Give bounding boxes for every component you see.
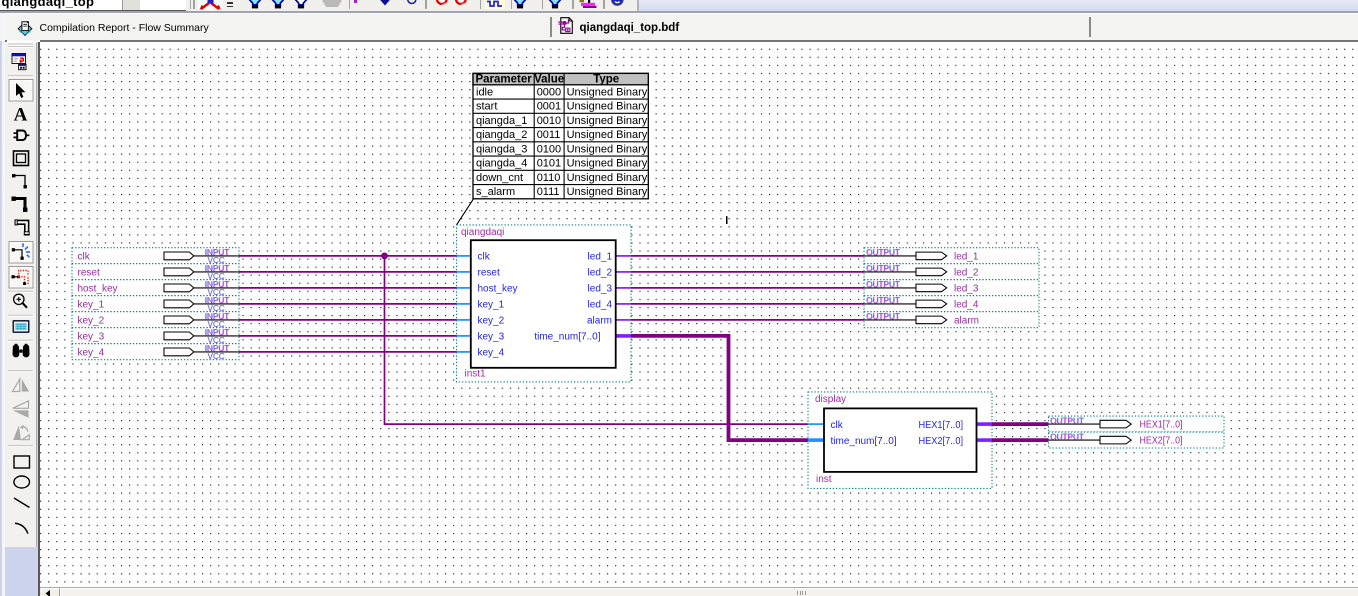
bus time_num[7..0] [631,335,808,439]
output pin alarm [864,311,1039,327]
svg-text:host_key: host_key [478,283,518,294]
svg-text:clk: clk [78,251,91,262]
wire reset to qiangdaqi [239,270,457,272]
bus wire HEX1[7..0] [992,422,1049,426]
svg-text:Type: Type [593,73,619,85]
junction clk node [381,252,388,259]
svg-text:time_num[7..0]: time_num[7..0] [534,331,600,342]
svg-text:led_2: led_2 [588,267,613,278]
svg-text:0001: 0001 [537,100,561,112]
svg-text:qiangda_2: qiangda_2 [476,129,527,141]
svg-text:OUTPUT: OUTPUT [866,296,900,305]
input pin key_4 [72,343,239,360]
input pin clk [72,247,239,264]
svg-text:key_3: key_3 [478,331,505,342]
parameter table [473,73,648,198]
svg-text:Unsigned Binary: Unsigned Binary [567,129,648,141]
svg-text:inst: inst [816,473,832,484]
output pin led_2 [864,263,1039,279]
input pin key_3 [72,327,239,344]
svg-text:clk: clk [831,419,844,430]
svg-text:0111: 0111 [537,186,560,198]
svg-text:key_1: key_1 [478,299,505,310]
svg-text:Unsigned Binary: Unsigned Binary [567,157,648,169]
svg-text:HEX2[7..0]: HEX2[7..0] [1140,435,1183,446]
bus wire HEX2[7..0] [992,438,1049,442]
svg-text:down_cnt: down_cnt [476,171,523,183]
svg-text:key_3: key_3 [78,331,105,342]
wire led_2 [631,270,864,272]
svg-text:led_3: led_3 [588,283,613,294]
svg-text:s_alarm: s_alarm [476,186,515,198]
output pin HEX2[7..0] [1049,432,1225,448]
svg-text:led_4: led_4 [588,299,613,310]
svg-text:Parameter: Parameter [475,73,532,85]
svg-text:0110: 0110 [537,171,561,183]
svg-text:OUTPUT: OUTPUT [866,248,900,257]
svg-text:OUTPUT: OUTPUT [1050,432,1084,441]
wire clk vertical to display [385,255,809,423]
svg-text:alarm: alarm [587,315,612,326]
svg-text:A: A [13,105,27,126]
wire led_4 [631,302,864,304]
svg-text:0101: 0101 [537,157,561,169]
svg-text:Unsigned Binary: Unsigned Binary [567,86,648,98]
svg-text:VCC: VCC [208,352,225,361]
svg-text:OUTPUT: OUTPUT [866,312,900,321]
svg-text:reset: reset [78,267,100,278]
output pin led_3 [864,279,1039,295]
input pin host_key [72,279,239,296]
symbol display inst [808,391,992,488]
output pin led_4 [864,295,1039,311]
svg-text:led_1: led_1 [954,251,979,262]
wire key_3 to qiangdaqi [239,334,457,336]
wire alarm [631,318,864,320]
wire host_key to qiangdaqi [239,286,457,288]
svg-text:inst1: inst1 [465,368,487,379]
svg-text:Value: Value [534,73,564,85]
svg-text:reset: reset [478,267,500,278]
svg-text:key_2: key_2 [478,315,505,326]
svg-text:host_key: host_key [78,283,118,294]
svg-text:Unsigned Binary: Unsigned Binary [567,171,648,183]
svg-text:led_2: led_2 [954,267,979,278]
svg-text:key_1: key_1 [78,299,105,310]
svg-text:HEX1[7..0]: HEX1[7..0] [919,419,964,430]
svg-text:display: display [815,394,846,405]
input pin key_1 [72,295,239,312]
svg-text:qiangdaqi: qiangdaqi [461,227,504,238]
svg-text:OUTPUT: OUTPUT [1050,416,1084,425]
wire led_3 [631,286,864,288]
output pin led_1 [864,247,1039,263]
svg-text:HEX2[7..0]: HEX2[7..0] [919,435,964,446]
svg-text:idle: idle [476,86,493,98]
svg-text:0010: 0010 [537,114,561,126]
callout line from table to symbol qiangdaqi [457,198,474,224]
wire key_1 to qiangdaqi [239,302,457,304]
svg-text:key_4: key_4 [478,347,505,358]
svg-text:led_3: led_3 [954,283,979,294]
wire led_1 [631,254,864,256]
svg-text:OUTPUT: OUTPUT [866,264,900,273]
wire clk to qiangdaqi [239,254,457,256]
svg-text:qiangda_3: qiangda_3 [476,143,527,155]
output pin HEX1[7..0] [1049,416,1225,432]
svg-text:OUTPUT: OUTPUT [866,280,900,289]
svg-text:alarm: alarm [954,315,979,326]
svg-text:clk: clk [478,251,491,262]
svg-text:Unsigned Binary: Unsigned Binary [567,100,648,112]
input pin reset [72,263,239,280]
svg-text:HEX1[7..0]: HEX1[7..0] [1140,419,1183,430]
text cursor mark [726,216,728,224]
svg-text:led_4: led_4 [954,299,979,310]
wire key_2 to qiangdaqi [239,318,457,320]
svg-text:qiangda_4: qiangda_4 [476,157,527,169]
svg-text:qiangda_1: qiangda_1 [476,114,527,126]
wire key_4 to qiangdaqi [239,350,457,352]
input pin key_2 [72,311,239,328]
svg-text:start: start [476,100,497,112]
svg-text:key_2: key_2 [78,315,105,326]
svg-text:Unsigned Binary: Unsigned Binary [567,143,648,155]
svg-text:key_4: key_4 [78,347,105,358]
svg-text:time_num[7..0]: time_num[7..0] [831,435,897,446]
svg-text:0100: 0100 [537,143,561,155]
svg-text:0000: 0000 [537,86,561,98]
svg-text:led_1: led_1 [588,251,613,262]
svg-text:Unsigned Binary: Unsigned Binary [567,186,648,198]
svg-text:0011: 0011 [537,129,561,141]
svg-text:Unsigned Binary: Unsigned Binary [567,114,648,126]
symbol qiangdaqi inst1 [457,224,632,381]
